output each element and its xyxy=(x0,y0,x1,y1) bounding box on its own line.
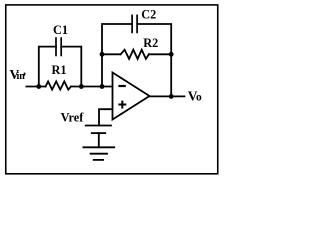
svg-text:R1: R1 xyxy=(52,63,67,77)
svg-text:in: in xyxy=(17,71,26,82)
svg-text:o: o xyxy=(196,92,202,104)
svg-text:R2: R2 xyxy=(143,36,158,50)
svg-text:Vref: Vref xyxy=(61,111,85,125)
svg-text:C1: C1 xyxy=(53,23,68,37)
svg-text:C2: C2 xyxy=(141,7,156,21)
